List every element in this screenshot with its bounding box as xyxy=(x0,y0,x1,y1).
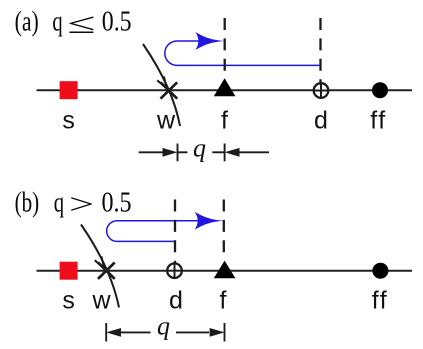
q dimension right tick (a) xyxy=(224,144,226,162)
svg-text:q: q xyxy=(193,134,206,163)
q dimension right arrowhead (b) xyxy=(210,328,225,337)
marker d circle-plus (b) xyxy=(167,263,182,278)
svg-text:d: d xyxy=(314,107,328,135)
q dimension right stub (a) xyxy=(212,151,224,153)
q dimension right line (b) xyxy=(176,331,209,333)
q dimension left arrow line (a) xyxy=(139,151,164,153)
svg-text:s: s xyxy=(62,287,75,315)
svg-text:ff: ff xyxy=(372,287,388,315)
q dimension right arrow line (a) xyxy=(240,151,270,153)
blue arrowhead (b) at f xyxy=(195,212,224,230)
resampling arc through w (b) xyxy=(81,225,119,308)
dashed line d (a) xyxy=(319,18,321,83)
dashed line d (b) xyxy=(174,200,176,264)
svg-text:q: q xyxy=(54,187,64,219)
svg-text:(b): (b) xyxy=(15,187,40,219)
svg-text:(a): (a) xyxy=(15,6,39,38)
svg-text:0.5: 0.5 xyxy=(102,6,132,38)
dashed line f (b) xyxy=(223,200,225,261)
axis line (b) xyxy=(37,270,413,272)
q dimension right tick (b) xyxy=(224,323,226,342)
svg-text:s: s xyxy=(62,107,75,135)
svg-text:0.5: 0.5 xyxy=(102,187,132,219)
svg-text:q: q xyxy=(52,6,62,38)
marker ff dot (a) xyxy=(372,82,388,98)
svg-text:f: f xyxy=(220,287,227,315)
svg-text:q: q xyxy=(157,312,170,341)
svg-text:w: w xyxy=(91,287,111,315)
resampling arc through w (a) xyxy=(143,44,180,126)
marker s red square (b) xyxy=(60,262,78,280)
q dimension left arrowhead (a) xyxy=(163,148,178,157)
dashed line f (a) xyxy=(224,18,226,78)
q dimension left stub (a) xyxy=(178,151,188,153)
axis line (a) xyxy=(37,89,413,91)
svg-text:f: f xyxy=(221,107,228,135)
svg-text:d: d xyxy=(169,287,183,315)
blue move arrow (b): u-turn from d to f xyxy=(107,221,205,242)
marker w cross (a) xyxy=(161,82,178,98)
arc arrowhead (b) xyxy=(95,256,104,268)
q dimension left tick (a) xyxy=(177,144,179,162)
marker ff dot (b) xyxy=(372,263,388,279)
marker w cross (b) xyxy=(98,263,115,279)
blue arrowhead (a) at f xyxy=(195,32,224,50)
q dimension left tick (b) xyxy=(105,323,107,342)
arc arrowhead (a) xyxy=(157,76,166,88)
marker f triangle (a) xyxy=(214,78,236,96)
svg-text:>: > xyxy=(69,188,94,220)
blue move arrow (a): u-turn from d to f xyxy=(165,41,321,65)
marker d circle-plus (a) xyxy=(314,83,329,98)
marker s red square (a) xyxy=(60,81,78,99)
svg-text:w: w xyxy=(156,107,176,135)
q dimension left line (b) xyxy=(121,331,151,333)
q dimension left arrowhead (b) xyxy=(106,328,121,337)
marker f triangle (b) xyxy=(214,261,236,279)
q dimension right arrowhead (a) xyxy=(225,148,240,157)
svg-text:ff: ff xyxy=(370,107,386,135)
svg-text:≤: ≤ xyxy=(68,8,96,40)
